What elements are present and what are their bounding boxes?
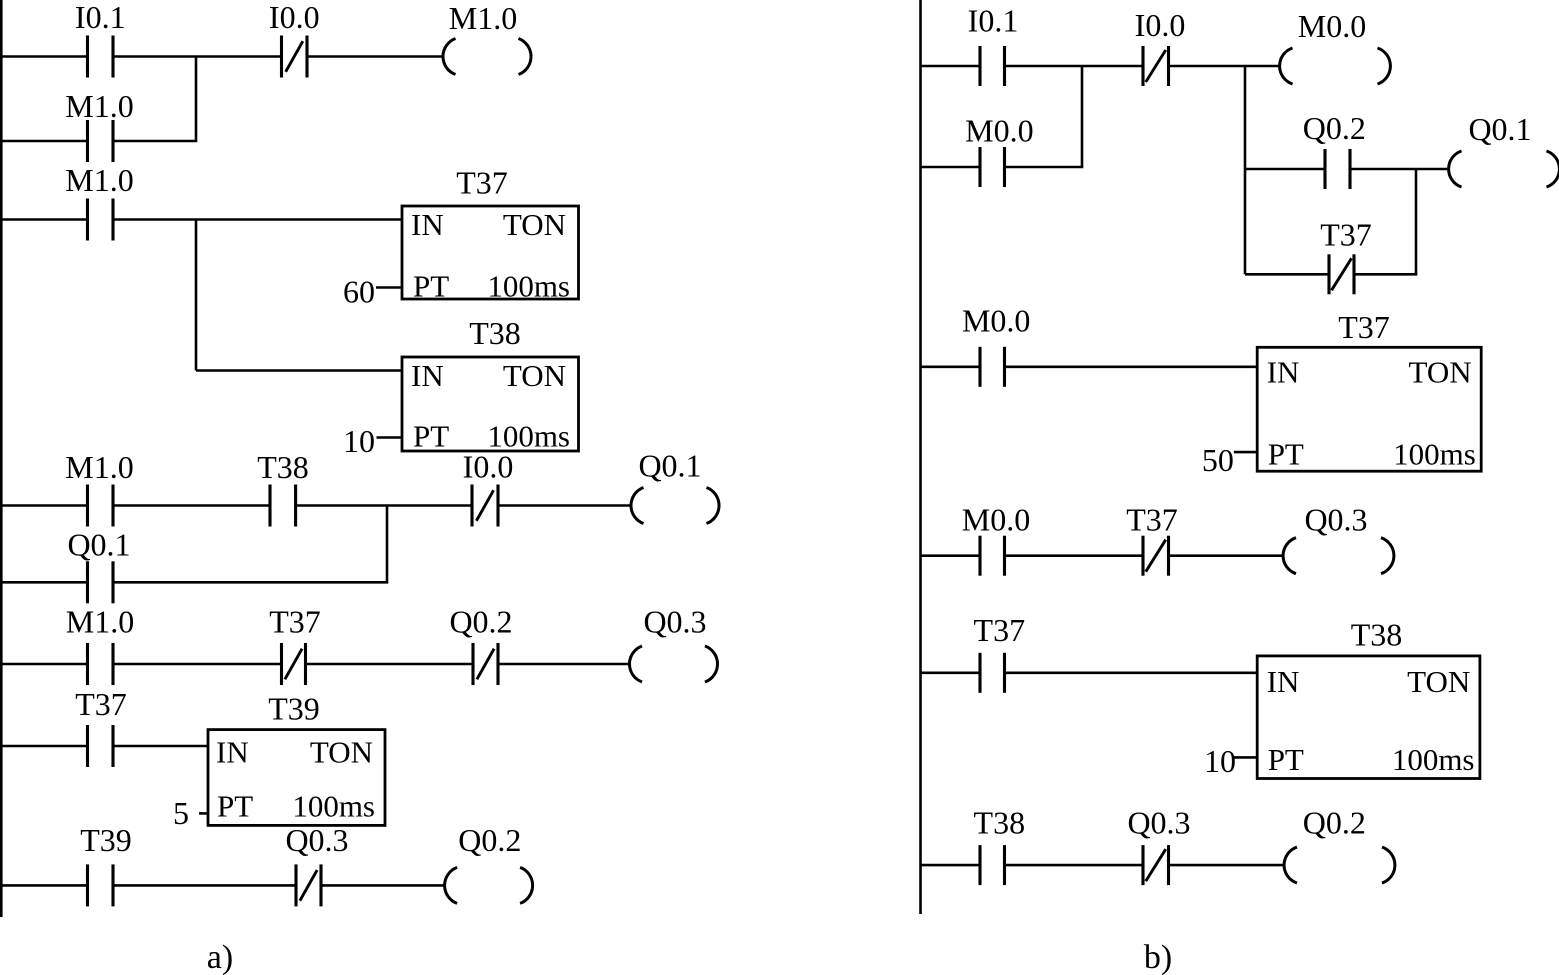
svg-text:T39: T39 [80,822,132,858]
coil M0.0 [1280,48,1391,84]
svg-text:I0.0: I0.0 [1135,7,1186,43]
svg-text:Q0.3: Q0.3 [643,604,706,640]
svg-text:T38: T38 [469,315,521,351]
wire a1b rail to M1.0 [0,140,88,143]
svg-text:T38: T38 [1351,616,1403,652]
svg-text:T37: T37 [974,612,1026,648]
wire a3b rail to Q0.1 [0,581,88,584]
svg-text:T37: T37 [75,686,127,722]
coil Q0.3 [629,646,717,682]
svg-text:I0.0: I0.0 [463,449,514,485]
wire a1 I0.1 to I0.0 [113,55,282,58]
contact T37 (NC) [1143,536,1169,576]
contact M0.0 (NO, seal-in) [980,147,1005,187]
wire b3 rail to M0.0 [921,554,981,557]
svg-text:Q0.3: Q0.3 [285,822,348,858]
wire a1 rail to I0.1 [0,55,88,58]
coil Q0.2 [445,867,533,903]
wire a6 T39 to Q0.3 [113,884,296,887]
svg-text:T37: T37 [269,604,321,640]
wire T37 PT stub [376,286,402,289]
svg-text:TON: TON [310,735,373,770]
svg-text:T38: T38 [974,804,1026,840]
contact M0.0 (NO) [980,347,1005,387]
wire T38 PT stub [1234,756,1257,759]
svg-text:IN: IN [1267,664,1300,699]
wire b1d junction to T37 [1245,273,1329,276]
contact I0.1 (NO) [88,36,114,78]
coil M1.0 [443,39,531,75]
contact T37 (NC) [1329,254,1354,294]
contact M1.0 (NO) [88,643,114,685]
wire T37 PT stub [1234,451,1257,454]
junction vertical a1-a1b [195,57,198,142]
svg-text:Q0.3: Q0.3 [1127,804,1190,840]
svg-text:M0.0: M0.0 [962,501,1030,537]
contact T38 (NO) [980,845,1005,885]
wire a4 rail to M1.0 [0,663,88,666]
svg-text:I0.0: I0.0 [269,0,320,35]
wire a2 rail to M1.0 [0,218,88,221]
contact Q0.2 (NO) [1325,149,1350,189]
wire a3 I0.0 to coil Q0.1 [498,504,631,507]
junction vertical b1 to Q0.2/T37 branches [1244,66,1247,274]
svg-text:Q0.2: Q0.2 [1303,110,1366,146]
svg-text:M1.0: M1.0 [449,0,517,36]
wire b1 I0.0 to coil M0.0 [1169,65,1281,68]
wire a4 Q0.2 to coil Q0.3 [498,663,630,666]
junction vertical a3 to Q0.1 branch [386,506,389,583]
timer T37 TON box [402,206,579,299]
contact T37 (NC) [282,643,306,685]
timer T38 TON box [1257,656,1480,779]
svg-text:a): a) [207,939,233,975]
contact M1.0 (NO, seal-in) [88,120,114,162]
svg-text:PT: PT [1268,437,1304,472]
svg-text:M1.0: M1.0 [65,88,133,124]
wire a1 I0.0 to coil M1.0 [307,55,443,58]
wire b2 rail to M0.0 [921,365,981,368]
wire b4 rail to T37 [921,671,981,674]
svg-text:T37: T37 [1320,216,1372,252]
junction vertical b1 to M0.0 branch [1081,66,1084,167]
wire b4 T37 to T38 box [1005,671,1258,674]
wire b2 M0.0 to T37 box [1005,365,1258,368]
svg-text:60: 60 [343,274,375,310]
wire a4 M1.0 to T37 [113,663,282,666]
svg-text:PT: PT [413,419,449,454]
contact M1.0 (NO) [88,199,114,241]
svg-text:TON: TON [1408,354,1471,389]
wire a3 M1.0 to T38 [113,504,270,507]
svg-text:M0.0: M0.0 [965,113,1033,149]
wire b3 M0.0 to T37 [1005,554,1144,557]
coil Q0.1 [1449,151,1559,187]
svg-text:Q0.1: Q0.1 [67,527,130,563]
svg-text:PT: PT [1268,742,1304,777]
svg-text:100ms: 100ms [1392,742,1475,777]
contact T37 (NO) [88,725,114,767]
wire a2 M1.0 to T37 box [113,218,402,221]
wire a6 Q0.3 to coil Q0.2 [321,884,444,887]
coil Q0.2 [1284,847,1395,883]
wire a4 T37 to Q0.2 [306,663,474,666]
wire a5 rail to T37 [0,745,88,748]
wire b5 T38 to Q0.3 [1005,864,1144,867]
svg-text:50: 50 [1202,442,1234,478]
svg-text:TON: TON [503,207,566,242]
contact T37 (NO) [980,653,1005,693]
left power rail (network a) [0,0,3,917]
timer T38 TON box [402,357,579,451]
wire T39 PT stub [199,812,208,815]
svg-text:M0.0: M0.0 [962,303,1030,339]
wire b5 rail to T38 [921,864,981,867]
svg-text:Q0.1: Q0.1 [638,448,701,484]
svg-text:IN: IN [411,358,444,393]
contact I0.0 (NC) [472,485,498,527]
svg-text:T37: T37 [1126,501,1178,537]
svg-text:PT: PT [217,789,253,824]
svg-text:TON: TON [1407,664,1470,699]
timer T37 TON box [1257,347,1481,471]
svg-text:b): b) [1144,939,1172,975]
contact I0.0 (NC) [1143,46,1169,86]
svg-text:IN: IN [216,735,249,770]
svg-text:M0.0: M0.0 [1298,8,1366,44]
wire b1d T37 to right junction [1354,273,1417,276]
contact Q0.3 (NC) [296,864,321,906]
svg-text:I0.1: I0.1 [75,0,126,35]
svg-text:I0.1: I0.1 [968,3,1019,39]
wire b3 T37 to coil Q0.3 [1169,554,1283,557]
svg-text:IN: IN [411,207,444,242]
timer T39 TON box [208,730,385,826]
coil Q0.3 [1283,538,1394,574]
svg-text:Q0.2: Q0.2 [449,604,512,640]
svg-text:Q0.2: Q0.2 [1303,804,1366,840]
contact Q0.3 (NC) [1143,845,1169,885]
svg-text:T37: T37 [1338,309,1390,345]
svg-text:TON: TON [503,358,566,393]
wire b1c junction to coil Q0.1 [1416,168,1450,171]
coil Q0.1 [631,488,719,524]
wire b1c Q0.2 to right junction [1350,168,1416,171]
contact M1.0 (NO) [88,485,114,527]
wire a1b M1.0 to junction [113,140,197,143]
wire a2b junction to T38 box [196,369,402,372]
wire b1 rail to I0.1 [921,65,981,68]
svg-text:100ms: 100ms [292,789,375,824]
svg-text:T39: T39 [268,691,320,727]
wire b1 I0.1 to I0.0 [1005,65,1144,68]
contact Q0.1 (NO, seal-in) [88,561,114,603]
junction vertical b1c to T37 branch [1415,169,1418,274]
contact T38 (NO) [270,485,296,527]
wire b1b M0.0 to junction [1005,166,1084,169]
wire a3 rail to M1.0 [0,504,88,507]
svg-text:M1.0: M1.0 [65,449,133,485]
wire b5 Q0.3 to coil Q0.2 [1169,864,1285,867]
contact I0.0 (NC) [282,36,308,78]
svg-text:M1.0: M1.0 [66,604,134,640]
wire T38 PT stub [377,436,403,439]
svg-text:T38: T38 [257,449,309,485]
wire a5 T37 to T39 box [113,745,208,748]
svg-text:IN: IN [1267,354,1300,389]
wire b1c junction to Q0.2 [1245,168,1325,171]
svg-text:5: 5 [173,795,189,831]
svg-text:100ms: 100ms [487,269,570,304]
svg-text:10: 10 [1204,743,1236,779]
contact T39 (NO) [88,864,114,906]
svg-text:T37: T37 [456,165,508,201]
svg-text:PT: PT [413,269,449,304]
svg-text:100ms: 100ms [1393,437,1476,472]
wire a3b Q0.1 to junction [113,581,388,584]
contact Q0.2 (NC) [473,643,498,685]
svg-text:Q0.3: Q0.3 [1304,501,1367,537]
wire a3 T38 to I0.0 [296,504,472,507]
svg-text:Q0.2: Q0.2 [458,822,521,858]
svg-text:10: 10 [343,423,375,459]
wire a6 rail to T39 [0,884,88,887]
contact I0.1 (NO) [980,46,1005,86]
contact M0.0 (NO) [980,536,1005,576]
svg-text:M1.0: M1.0 [65,162,133,198]
junction vertical a2 to T38 branch [195,220,198,371]
svg-text:Q0.1: Q0.1 [1468,111,1531,147]
left power rail (network b) [919,0,922,914]
wire b1b rail to M0.0 [921,166,981,169]
